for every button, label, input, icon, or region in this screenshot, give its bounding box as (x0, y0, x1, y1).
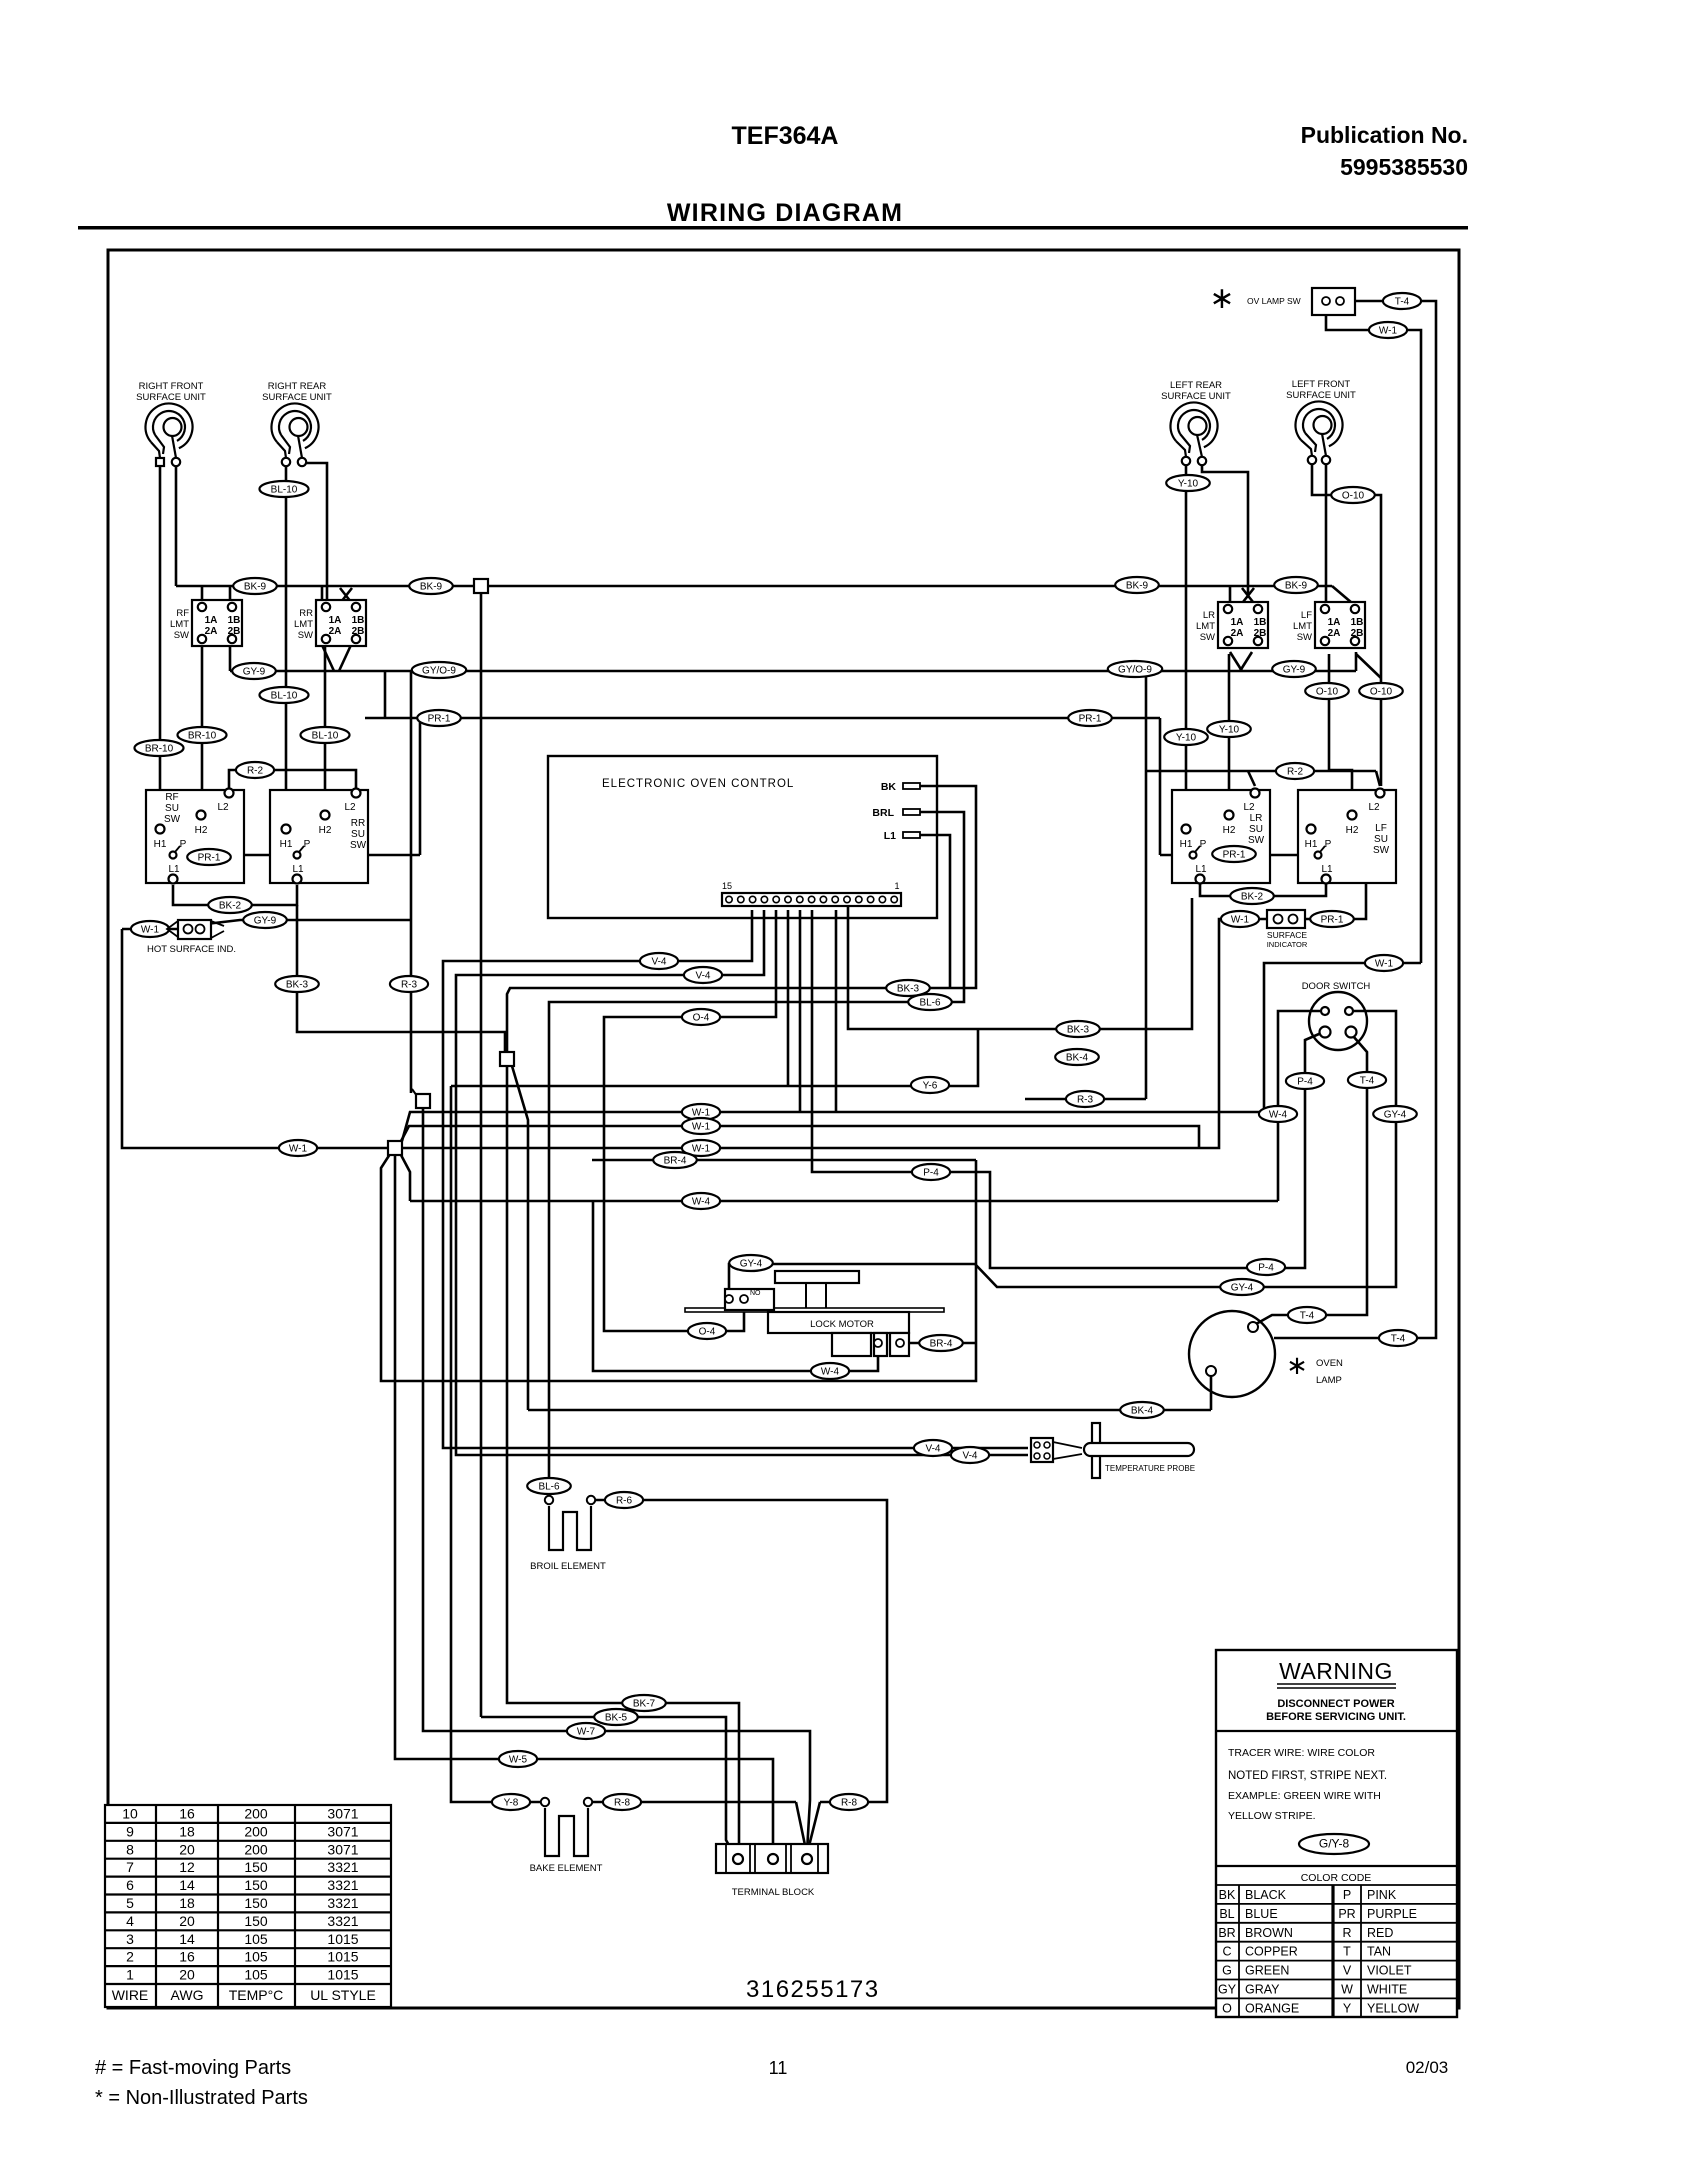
svg-text:SU: SU (165, 803, 179, 814)
svg-text:T-4: T-4 (1360, 1076, 1375, 1087)
svg-text:3321: 3321 (327, 1913, 358, 1929)
svg-text:RF: RF (165, 792, 178, 803)
wire LF LMT SW 2A to H2 (O-10) (1329, 654, 1352, 807)
wire R-2 RF L2 to RR L2 (229, 770, 356, 788)
svg-text:BK-2: BK-2 (219, 901, 242, 912)
svg-text:2A: 2A (329, 626, 342, 637)
svg-text:GY/O-9: GY/O-9 (422, 666, 456, 677)
svg-text:2B: 2B (1254, 628, 1267, 639)
svg-text:TEMP°C: TEMP°C (229, 1987, 284, 2003)
svg-text:TRACER WIRE: WIRE COLOR: TRACER WIRE: WIRE COLOR (1228, 1747, 1375, 1759)
svg-text:PR: PR (1338, 1907, 1355, 1921)
svg-text:SW: SW (1200, 632, 1215, 643)
EOC pin 3 (867, 896, 873, 902)
svg-text:LEFT REAR: LEFT REAR (1170, 380, 1222, 391)
svg-text:P-4: P-4 (1297, 1077, 1313, 1088)
svg-text:BK-5: BK-5 (605, 1713, 628, 1724)
EOC pin 10 (785, 896, 791, 902)
svg-text:SW: SW (164, 814, 181, 825)
svg-text:ELECTRONIC OVEN CONTROL: ELECTRONIC OVEN CONTROL (602, 778, 794, 790)
svg-text:SURFACE UNIT: SURFACE UNIT (136, 392, 206, 403)
svg-text:Y-8: Y-8 (504, 1798, 519, 1809)
svg-text:TEF364A: TEF364A (732, 122, 839, 150)
svg-text:ORANGE: ORANGE (1245, 2001, 1299, 2015)
surface switch RF SU SW (146, 789, 244, 884)
wire label BK-4 (1055, 1049, 1099, 1065)
svg-text:R-8: R-8 (614, 1798, 631, 1809)
wire label BK-3 (1056, 1021, 1100, 1037)
wire label PR-1 (1068, 710, 1112, 726)
svg-text:11: 11 (769, 2058, 788, 2078)
surface switch RR SU SW (270, 789, 368, 884)
temperature probe connector (1031, 1438, 1053, 1462)
wire RF LMT SW 2B down to GY-9 bus (229, 642, 232, 671)
wire label T-4 (1383, 293, 1421, 309)
wire RR LMT SW 2A to H2 (BL-10) (324, 645, 327, 807)
wire label BL-10 (301, 727, 350, 743)
svg-text:W-5: W-5 (509, 1755, 528, 1766)
svg-text:1A: 1A (1328, 617, 1341, 628)
wire label T-4 (1348, 1072, 1386, 1088)
svg-text:PR-1: PR-1 (198, 853, 221, 864)
wire stub BK-9 to LR LMT SW 1A (1229, 586, 1232, 601)
svg-text:LR: LR (1203, 610, 1215, 621)
svg-text:O: O (1222, 2001, 1232, 2015)
svg-text:P: P (1200, 839, 1207, 850)
wire BK-4 row to oven lamp (528, 1409, 1211, 1412)
wire crossover to RR LMT SW 1B (340, 588, 351, 602)
svg-text:02/03: 02/03 (1406, 2058, 1449, 2077)
svg-text:BK-4: BK-4 (1131, 1406, 1154, 1417)
svg-text:150: 150 (244, 1877, 268, 1893)
junction connector J4 (388, 1141, 402, 1155)
svg-text:V-4: V-4 (695, 971, 710, 982)
oven lamp circle (1189, 1311, 1275, 1397)
svg-text:SURFACE UNIT: SURFACE UNIT (262, 392, 332, 403)
wire gauge table data (112, 1806, 376, 2004)
wire label PR-1 (187, 849, 231, 865)
svg-text:SU: SU (1374, 834, 1388, 845)
EOC pin 8 (808, 896, 814, 902)
door switch circle (1309, 992, 1367, 1050)
left front surface unit coil (1286, 379, 1356, 464)
svg-text:4: 4 (126, 1913, 134, 1929)
svg-text:2A: 2A (1231, 628, 1244, 639)
svg-text:O-10: O-10 (1370, 687, 1393, 698)
svg-text:UL STYLE: UL STYLE (310, 1987, 376, 2003)
wire W-1 row 3 to right side (402, 963, 1421, 1141)
lock motor switch (725, 1289, 774, 1310)
svg-text:Publication No.: Publication No. (1301, 122, 1468, 148)
svg-text:T-4: T-4 (1391, 1334, 1406, 1345)
EOC pin 4 (856, 896, 862, 902)
svg-text:18: 18 (179, 1895, 195, 1911)
svg-text:L1: L1 (1321, 864, 1333, 875)
svg-text:W-1: W-1 (1379, 326, 1398, 337)
wire W-1 down left side (122, 929, 388, 1148)
svg-text:12: 12 (179, 1859, 195, 1875)
wire label W-1 (1365, 955, 1403, 971)
wire label W-4 (682, 1193, 720, 1209)
wire label R-8 (830, 1794, 868, 1810)
svg-text:W-1: W-1 (1231, 915, 1250, 926)
svg-text:BR: BR (1218, 1926, 1235, 1940)
svg-text:P: P (304, 839, 311, 850)
svg-text:R-8: R-8 (841, 1798, 858, 1809)
svg-text:316255173: 316255173 (746, 1976, 880, 2003)
svg-text:Y-10: Y-10 (1219, 725, 1240, 736)
svg-text:GY: GY (1218, 1983, 1237, 1997)
wire BR-4 row (592, 1159, 976, 1162)
svg-text:H2: H2 (1223, 825, 1236, 836)
bake element terminal left (541, 1798, 549, 1806)
wire label Y-10 (1207, 721, 1251, 737)
svg-text:BL: BL (1219, 1907, 1234, 1921)
svg-text:5: 5 (126, 1895, 134, 1911)
wire riser P row to PR-1 bus (419, 718, 422, 855)
svg-text:INDICATOR: INDICATOR (1267, 940, 1308, 949)
svg-text:YELLOW: YELLOW (1367, 2001, 1419, 2015)
wire label T-4 (1288, 1307, 1326, 1323)
svg-text:2: 2 (126, 1949, 134, 1965)
wire GY-9 from hot surface indicator (206, 920, 411, 924)
svg-text:LF: LF (1375, 823, 1387, 834)
svg-text:15: 15 (722, 881, 732, 891)
svg-text:V: V (1343, 1964, 1352, 1978)
svg-text:∗: ∗ (1286, 1350, 1308, 1380)
wire label P-4 (1286, 1073, 1324, 1089)
svg-text:105: 105 (244, 1949, 268, 1965)
wire label R-8 (603, 1794, 641, 1810)
svg-text:L2: L2 (1368, 802, 1380, 813)
svg-text:20: 20 (179, 1841, 195, 1857)
wire LR LMT SW 2A to H2 (Y-10) (1228, 654, 1231, 807)
wire W-4 from junction (401, 1155, 410, 1201)
wire BR-4 to lock motor (906, 1342, 976, 1345)
svg-text:RIGHT FRONT: RIGHT FRONT (139, 381, 204, 392)
svg-text:LOCK MOTOR: LOCK MOTOR (810, 1319, 874, 1330)
svg-text:L1: L1 (292, 864, 304, 875)
wire LR LMT SW 2A to GY-9 bus (1230, 652, 1242, 671)
svg-text:GY-4: GY-4 (1384, 1110, 1407, 1121)
wire RR unit right terminal down to RR LMT SW 1A (302, 463, 327, 601)
wire LR unit left terminal to H1 (Y-10) (1185, 466, 1188, 821)
svg-text:* = Non-Illustrated Parts: * = Non-Illustrated Parts (95, 2087, 308, 2109)
wire label BK-4 (1120, 1402, 1164, 1418)
svg-text:8: 8 (126, 1841, 134, 1857)
svg-text:BL-6: BL-6 (538, 1482, 560, 1493)
wire gauge table (105, 1805, 391, 2007)
surface indicator (1267, 910, 1305, 928)
heading rule (78, 226, 1468, 230)
svg-text:H1: H1 (154, 839, 167, 850)
svg-text:GRAY: GRAY (1245, 1983, 1280, 1997)
svg-text:# = Fast-moving Parts: # = Fast-moving Parts (95, 2057, 291, 2079)
electronic oven control box (548, 756, 937, 918)
junction connector J2 (500, 1052, 514, 1066)
svg-text:L2: L2 (217, 802, 229, 813)
svg-text:R: R (1342, 1926, 1351, 1940)
wire label BR-10 (135, 740, 184, 756)
svg-text:R-6: R-6 (616, 1496, 633, 1507)
svg-text:3321: 3321 (327, 1895, 358, 1911)
svg-text:W-7: W-7 (577, 1727, 596, 1738)
wire O-4 to lock motor switch (604, 910, 776, 1331)
wire W-1 to hot surface indicator (122, 928, 182, 931)
wire BL-6 from EOC BRL to broil element (549, 812, 964, 1500)
svg-text:1015: 1015 (327, 1949, 358, 1965)
svg-text:150: 150 (244, 1859, 268, 1875)
wire P row RF-RR (PR-1) (178, 854, 420, 857)
svg-text:3071: 3071 (327, 1823, 358, 1839)
svg-text:6: 6 (126, 1877, 134, 1893)
svg-text:20: 20 (179, 1967, 195, 1983)
wire R-2/R-3 riser (1145, 671, 1148, 1099)
wire label BK-2 (1230, 888, 1274, 904)
svg-text:W-1: W-1 (289, 1144, 308, 1155)
wire R-8 into terminal block (808, 1802, 820, 1850)
svg-text:OV LAMP SW: OV LAMP SW (1247, 296, 1301, 306)
oven lamp switch OV LAMP SW (1312, 288, 1355, 315)
wire W-7 to terminal block right (423, 1108, 810, 1852)
wire label PR-1 (1310, 911, 1354, 927)
wire V-4 a to temperature probe (443, 910, 1028, 1448)
svg-text:BK-3: BK-3 (1067, 1025, 1090, 1036)
svg-text:1015: 1015 (327, 1931, 358, 1947)
wire label P-4 (912, 1164, 950, 1180)
svg-text:AWG: AWG (171, 1987, 204, 2003)
wire R-8 into terminal block right (796, 1802, 806, 1850)
wire BK-2 LR L1 to LF L1 (1200, 879, 1326, 896)
svg-text:TAN: TAN (1367, 1945, 1391, 1959)
wire label BL-6 (908, 994, 952, 1010)
svg-text:W-4: W-4 (1269, 1110, 1288, 1121)
wire P-4 to door switch (812, 910, 1319, 1268)
EOC pin 5 (844, 896, 850, 902)
svg-text:BL-10: BL-10 (312, 731, 339, 742)
diagram border box (108, 250, 1459, 2008)
wire PR-1 from surface indicator (1298, 855, 1366, 919)
wire pin 10 drop (835, 910, 838, 1112)
oven lamp terminal upper (1248, 1322, 1258, 1332)
wire label W-5 (499, 1751, 537, 1767)
wire BR-4 return loop (381, 1154, 976, 1381)
wire label BK-7 (622, 1695, 666, 1711)
svg-text:1015: 1015 (327, 1967, 358, 1983)
svg-text:GREEN: GREEN (1245, 1964, 1289, 1978)
wire label GY-9 (243, 912, 287, 928)
wire RF unit right terminal down (175, 466, 178, 586)
svg-text:W: W (1341, 1983, 1353, 1997)
svg-text:RF: RF (176, 608, 189, 619)
warning divider (1216, 1730, 1457, 1732)
wire RR unit left terminal to H1 (BL-10) (285, 466, 288, 826)
svg-text:SU: SU (351, 829, 365, 840)
wire BK-3 row B from pin to BK-2 net (848, 898, 1192, 1029)
svg-text:SW: SW (1248, 835, 1265, 846)
svg-text:GY-9: GY-9 (1283, 665, 1306, 676)
wire riser between buses (384, 671, 387, 718)
wire label W-1 (279, 1140, 317, 1156)
surface switch LR SU SW (1172, 789, 1270, 884)
svg-text:V-4: V-4 (925, 1444, 940, 1455)
limit switch LR LMT SW (1196, 602, 1268, 648)
svg-text:SW: SW (174, 630, 189, 641)
svg-text:TERMINAL BLOCK: TERMINAL BLOCK (732, 1887, 815, 1898)
svg-text:1A: 1A (1231, 617, 1244, 628)
wire label W-1 (682, 1118, 720, 1134)
svg-text:W-1: W-1 (692, 1144, 711, 1155)
svg-text:LMT: LMT (294, 619, 313, 630)
svg-text:SW: SW (1373, 845, 1390, 856)
svg-text:3321: 3321 (327, 1877, 358, 1893)
wire label R-3 (390, 976, 428, 992)
svg-text:BR-4: BR-4 (930, 1339, 953, 1350)
svg-text:Y-6: Y-6 (923, 1081, 938, 1092)
wire label R-6 (605, 1492, 643, 1508)
wire BK-7 to terminal block left (507, 1066, 739, 1856)
svg-text:C: C (1222, 1945, 1231, 1959)
svg-text:P: P (1325, 839, 1332, 850)
svg-text:BK-9: BK-9 (244, 582, 267, 593)
svg-text:1B: 1B (1254, 617, 1267, 628)
svg-text:3071: 3071 (327, 1806, 358, 1822)
wire label Y-8 (492, 1794, 530, 1810)
right front surface unit coil (136, 381, 206, 466)
wire into junction (412, 1089, 417, 1096)
wire from EOC L1 stub (920, 835, 950, 988)
wire RF unit left terminal to H1 (BR-10) (159, 466, 162, 826)
wire label GY-4 (1220, 1279, 1264, 1295)
temperature probe (1053, 1423, 1194, 1478)
wire R-2 to LR L2 (1248, 771, 1255, 786)
svg-text:G: G (1222, 1964, 1232, 1978)
svg-text:BAKE ELEMENT: BAKE ELEMENT (530, 1863, 603, 1874)
svg-text:T-4: T-4 (1300, 1311, 1315, 1322)
svg-text:TEMPERATURE PROBE: TEMPERATURE PROBE (1105, 1464, 1195, 1473)
svg-text:LAMP: LAMP (1316, 1375, 1342, 1386)
color code divider (1216, 1865, 1457, 1867)
wire label Y-6 (911, 1077, 949, 1093)
wire label GY/O-9 (412, 662, 466, 678)
wire BK-2 RF L1 to RR L1 (173, 885, 297, 905)
svg-text:BK-9: BK-9 (1126, 581, 1149, 592)
svg-text:BK-3: BK-3 (897, 984, 920, 995)
svg-text:O-10: O-10 (1342, 491, 1365, 502)
svg-text:LR: LR (1250, 813, 1263, 824)
wire BK-4 from oven lamp (1210, 1374, 1213, 1410)
svg-text:16: 16 (179, 1949, 195, 1965)
right rear surface unit coil (262, 381, 332, 466)
wire label BK-9 (233, 578, 277, 594)
svg-text:WARNING: WARNING (1279, 1658, 1393, 1684)
svg-text:BEFORE SERVICING UNIT.: BEFORE SERVICING UNIT. (1266, 1711, 1406, 1723)
svg-text:2A: 2A (205, 626, 218, 637)
svg-text:1B: 1B (228, 615, 241, 626)
svg-text:Y-10: Y-10 (1178, 479, 1199, 490)
svg-text:BK-7: BK-7 (633, 1699, 656, 1710)
svg-text:H2: H2 (195, 825, 208, 836)
svg-text:150: 150 (244, 1913, 268, 1929)
wire label GY-9 (1272, 661, 1316, 677)
svg-text:L1: L1 (168, 864, 180, 875)
wire label GY-9 (232, 663, 276, 679)
wire label PR-1 (417, 710, 461, 726)
junction connector J1 on BK-9 bus (474, 579, 488, 593)
wire LF LMT SW 2B to GY-9 bus (1355, 652, 1358, 671)
wire label BK-2 (208, 897, 252, 913)
wire label BR-4 (919, 1335, 963, 1351)
svg-text:9: 9 (126, 1823, 134, 1839)
wire GY-9 riser / R-3 drop (410, 671, 413, 1093)
svg-text:WHITE: WHITE (1367, 1983, 1407, 1997)
svg-text:SURFACE UNIT: SURFACE UNIT (1286, 390, 1356, 401)
wire label PR-1 (1212, 846, 1256, 862)
warning box (1216, 1650, 1457, 2017)
wire label V-4 (951, 1447, 989, 1463)
color code table (1216, 1885, 1457, 2017)
bake element terminal right (584, 1798, 592, 1806)
wire LR LMT SW 2B to GY-9 bus (1240, 652, 1252, 671)
wire label BK-9 (409, 578, 453, 594)
svg-text:2B: 2B (1351, 628, 1364, 639)
EOC pin 13 (749, 896, 755, 902)
svg-text:DISCONNECT POWER: DISCONNECT POWER (1277, 1698, 1394, 1710)
svg-text:L2: L2 (344, 802, 356, 813)
svg-text:WIRE: WIRE (112, 1987, 149, 2003)
warning underline (1277, 1684, 1396, 1688)
svg-text:BK-4: BK-4 (1066, 1053, 1089, 1064)
EOC pin 9 (797, 896, 803, 902)
wire label W-4 (811, 1363, 849, 1379)
wire crossover to RR LMT SW 1A (341, 588, 352, 602)
wire BK-5 to terminal block left (481, 1717, 735, 1856)
svg-text:H1: H1 (1180, 839, 1193, 850)
svg-text:SU: SU (1249, 824, 1263, 835)
example oval G/Y-8 (1299, 1834, 1369, 1854)
svg-text:OVEN: OVEN (1316, 1358, 1343, 1369)
svg-text:H1: H1 (280, 839, 293, 850)
wire T-4 from door switch to oven lamp (1256, 1036, 1367, 1324)
svg-text:COLOR CODE: COLOR CODE (1301, 1872, 1372, 1884)
wire BK from EOC to junction (507, 786, 976, 1052)
svg-text:18: 18 (179, 1823, 195, 1839)
wire R-3 row (1025, 1098, 1146, 1101)
surface switch LF SU SW (1298, 789, 1396, 884)
svg-text:H2: H2 (319, 825, 332, 836)
svg-text:Y-10: Y-10 (1176, 733, 1197, 744)
svg-text:2B: 2B (228, 626, 241, 637)
svg-text:Y: Y (1343, 2001, 1352, 2015)
svg-text:PINK: PINK (1367, 1888, 1397, 1902)
wire label GY-4 (729, 1255, 773, 1271)
junction connector J3 (416, 1094, 430, 1108)
svg-text:105: 105 (244, 1931, 268, 1947)
wire label O-4 (688, 1323, 726, 1339)
svg-text:PR-1: PR-1 (1223, 850, 1246, 861)
wire label O-10 (1305, 683, 1349, 699)
svg-text:LMT: LMT (170, 619, 189, 630)
wire label V-4 (684, 967, 722, 983)
svg-text:RED: RED (1367, 1926, 1393, 1940)
svg-text:P: P (180, 839, 187, 850)
svg-text:GY-9: GY-9 (254, 916, 277, 927)
wire BK-3 from RR L1 down to junction (297, 905, 505, 1052)
wire LF LMT SW 2B diagonal to O-10 riser (1356, 654, 1381, 678)
wire RF LMT SW 2A to H2 (BR-10) (201, 644, 204, 807)
EOC pin 2 (879, 896, 885, 902)
wire label Y-10 (1164, 729, 1208, 745)
